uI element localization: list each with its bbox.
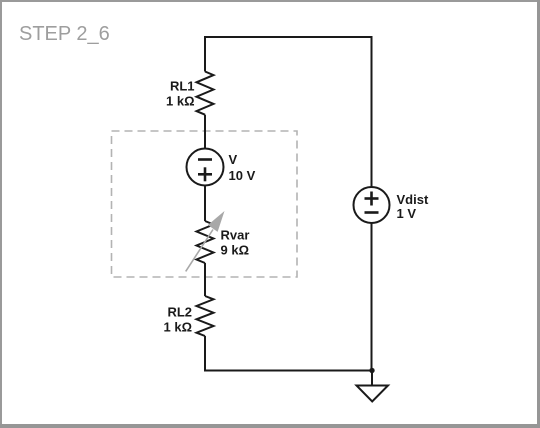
svg-text:10 V: 10 V — [229, 168, 256, 183]
resistor RL2 — [164, 296, 214, 336]
wire V to Rvar — [204, 186, 206, 222]
svg-text:1 kΩ: 1 kΩ — [164, 320, 193, 335]
svg-text:STEP 2_6: STEP 2_6 — [19, 23, 110, 45]
voltage source Vdist — [354, 187, 429, 223]
svg-text:V: V — [229, 152, 238, 167]
title STEP 2_6 — [19, 23, 110, 45]
svg-text:RL1: RL1 — [170, 79, 195, 94]
wire top horizontal — [204, 36, 373, 38]
svg-text:1 V: 1 V — [397, 206, 417, 221]
wire right vertical to Vdist — [371, 36, 373, 188]
wire RL1 to V — [204, 115, 206, 149]
wire Rvar to RL2 — [204, 263, 206, 296]
voltage source V — [187, 149, 256, 186]
svg-text:Vdist: Vdist — [397, 192, 429, 207]
variable resistor Rvar — [186, 211, 250, 271]
svg-text:Rvar: Rvar — [221, 228, 250, 243]
wire left vertical to RL1 — [204, 36, 206, 72]
junction node dot — [369, 368, 374, 373]
resistor RL1 — [166, 72, 214, 115]
ground — [357, 386, 389, 402]
svg-text:RL2: RL2 — [167, 305, 192, 320]
wire Vdist to junction — [371, 223, 373, 372]
wire RL2 to bottom — [204, 336, 206, 372]
wire bottom horizontal — [204, 370, 372, 372]
svg-text:1 kΩ: 1 kΩ — [166, 94, 195, 109]
dashed selection box — [112, 131, 298, 277]
svg-text:9 kΩ: 9 kΩ — [221, 243, 250, 258]
wire junction to ground — [371, 371, 373, 386]
